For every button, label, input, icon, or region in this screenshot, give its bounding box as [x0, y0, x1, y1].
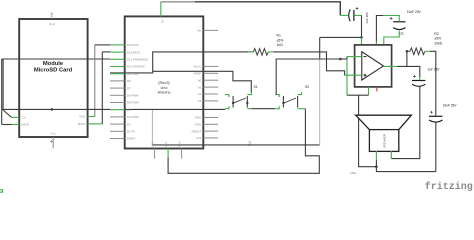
wire MISO to D12 (vertical B) — [101, 52, 103, 124]
pin D4 — [110, 109, 125, 111]
wire 5V up and top rail — [160, 2, 162, 10]
svg-text:AVCC: AVCC — [193, 65, 201, 69]
svg-text:A2: A2 — [198, 92, 202, 96]
pin A1 — [203, 86, 218, 88]
wire op-amp gnd to speaker-left rail — [347, 94, 369, 96]
svg-text:A3: A3 — [198, 99, 202, 103]
svg-text:GND: GND — [179, 141, 182, 147]
wire C4 bottom to speaker right pin — [391, 87, 420, 159]
svg-text:D13/SCK: D13/SCK — [127, 43, 139, 47]
Arduino right analog/power pins — [192, 65, 219, 141]
svg-text:S1: S1 — [254, 85, 258, 89]
pin D1/TX — [110, 130, 125, 132]
pin D0/RX — [110, 138, 125, 140]
pin Vcc (SD bottom) — [50, 131, 56, 148]
wire S2 left feed from GND net above — [276, 59, 340, 95]
Arduino bottom GND pins — [152, 141, 182, 158]
pin Vin (Arduino right top) — [197, 29, 218, 33]
wire S1 right to S2 left (bottom link) — [251, 108, 275, 110]
junction dot speaker left / gnd rail — [375, 165, 378, 168]
wire C3 bottom to op-amp pin — [384, 30, 400, 45]
pin D2 — [110, 123, 125, 125]
Arduino Uno box — [125, 16, 204, 148]
svg-text:LS1: LS1 — [350, 171, 356, 175]
pin AVCC — [203, 65, 218, 67]
wire CS/MOSI left bus bar — [2, 59, 12, 125]
svg-text:Arduino: Arduino — [157, 90, 170, 94]
svg-text:D7: D7 — [127, 86, 131, 90]
wire SCK to D13 (vertical A) — [94, 45, 96, 117]
speaker LS1 — [350, 115, 411, 175]
svg-text:Module: Module — [43, 61, 64, 67]
resistor R2 10k — [407, 32, 443, 55]
pin SCK (SD right) — [79, 115, 95, 119]
capacitor C4 1uF 25V (output coupling, vertical polarized) — [412, 67, 440, 86]
svg-text:(Rev3): (Rev3) — [158, 81, 170, 85]
svg-text:1uF 25V: 1uF 25V — [428, 67, 441, 71]
svg-text:10kΩ: 10kΩ — [434, 41, 442, 45]
pin D9 PWM — [110, 73, 125, 75]
svg-text:SCK: SCK — [79, 115, 86, 119]
wire S1 feed from D9 node — [153, 71, 252, 92]
pin 5V (Arduino top) — [161, 10, 165, 23]
pin D13/SCK — [110, 44, 125, 46]
wire dark horizontal y=144.9 — [152, 144, 319, 146]
svg-text:A1: A1 — [198, 85, 202, 89]
resistor R1 1k — [248, 34, 283, 56]
pin GND — [203, 117, 218, 119]
pin AREF — [203, 72, 218, 74]
svg-text:D12/MISO: D12/MISO — [127, 50, 141, 54]
pin op-amp output — [383, 65, 397, 67]
svg-text:fritzing: fritzing — [425, 181, 473, 193]
pin MISO (SD right) — [78, 122, 95, 126]
svg-text:10uF 25V: 10uF 25V — [407, 10, 422, 14]
wire D9 to R1 (via vertical inside box) — [110, 52, 253, 73]
svg-text:D0/RX: D0/RX — [127, 137, 136, 141]
pin MOSI (SD left) — [12, 123, 30, 127]
pin D8 — [110, 80, 125, 82]
capacitor C5 10uF 25V (zobel, vertical polarized) — [429, 103, 457, 122]
svg-text:D1/TX: D1/TX — [127, 130, 135, 134]
wire light-gray vertical from D9 node down — [151, 109, 153, 144]
wire dot into op-amp top pin — [361, 37, 363, 45]
op-amp triangle — [362, 52, 384, 80]
pin CS (SD left) — [12, 116, 26, 120]
pin op-amp plus input — [345, 74, 362, 76]
capacitor C3 10uF 25V (near U1, vertical polarized) — [390, 10, 422, 35]
svg-text:A0: A0 — [198, 78, 202, 82]
svg-text:U1: U1 — [400, 31, 404, 35]
svg-text:R1: R1 — [277, 34, 281, 38]
svg-text:D5 PWM: D5 PWM — [127, 101, 139, 105]
junction dot R2 left — [406, 50, 409, 53]
wire R1 to op-amp + input — [274, 52, 345, 75]
junction dot on GND rail at SD Gnd column — [51, 108, 54, 111]
svg-text:Gnd: Gnd — [49, 22, 55, 26]
svg-text:CS: CS — [21, 116, 25, 120]
svg-text:D8: D8 — [127, 79, 131, 83]
svg-text:Vcc: Vcc — [50, 131, 56, 135]
svg-text:D11 PWM/MOSI: D11 PWM/MOSI — [127, 58, 148, 62]
svg-text:S2: S2 — [305, 85, 309, 89]
pin A0 — [203, 79, 218, 81]
pin speaker left — [375, 151, 377, 160]
svg-text:±5%: ±5% — [277, 38, 284, 42]
pin A3 — [203, 100, 218, 102]
svg-text:AREF: AREF — [194, 72, 202, 76]
junction dot op-amp V+ — [360, 36, 363, 39]
pin D7 — [110, 87, 125, 89]
svg-text:SPEAKER: SPEAKER — [383, 133, 387, 148]
svg-text:R2: R2 — [434, 32, 438, 36]
pin speaker right — [390, 151, 392, 159]
pin 3V3 — [203, 137, 218, 139]
wire dark horizontal y=37.4 to V+ dot — [320, 36, 362, 38]
wire D11/MOSI net (y=59, drawn over SD box) — [2, 58, 110, 60]
svg-text:MOSI: MOSI — [21, 123, 29, 127]
pin Gnd (SD top) — [49, 13, 55, 26]
wire C5 bottom to gnd rail — [435, 122, 437, 171]
pin D6 PWM — [110, 94, 125, 96]
svg-text:1kΩ: 1kΩ — [277, 43, 284, 47]
pin GND2 — [203, 123, 218, 125]
junction dot GND net at cap column — [339, 58, 342, 61]
svg-text:RESET: RESET — [192, 129, 202, 133]
wire op-amp output to C4 and R2 — [397, 66, 419, 77]
pin op-amp gnd (bottom) — [368, 87, 370, 95]
wire Arduino GND to S2 bottom (bottom rail) — [168, 109, 319, 174]
wire gnd rail bottom to C5 — [376, 167, 435, 172]
wire cap to V+ dot — [361, 15, 363, 37]
pin op-amp unconnected (red, bottom) — [376, 87, 378, 92]
op-amp U1 box — [355, 45, 392, 87]
pin A2 — [203, 93, 218, 95]
capacitor C2 1uF 25V (top, horizontal polarized) — [340, 7, 369, 24]
Arduino left digital pins D13..D0 — [110, 43, 148, 141]
svg-text:GND: GND — [195, 123, 201, 127]
wire R2 right down to C5 — [430, 51, 436, 116]
module MicroSD Card box — [19, 19, 87, 137]
svg-text:Uno: Uno — [161, 86, 168, 90]
svg-text:D9 PWM: D9 PWM — [127, 72, 139, 76]
pin op-amp minus input — [347, 56, 362, 58]
svg-text:D3 PWM: D3 PWM — [127, 115, 139, 119]
pin GND bottom-middle — [167, 149, 169, 158]
svg-text:1kΩ: 1kΩ — [248, 140, 252, 146]
pushbutton S1 — [225, 85, 258, 109]
svg-text:GND: GND — [152, 141, 155, 147]
pin D11 PWM/MOSI — [110, 58, 125, 60]
pin D10 PWM/SS — [110, 66, 125, 68]
pin D12/MISO — [110, 51, 125, 53]
pin D3 PWM — [110, 116, 125, 118]
svg-text:GND: GND — [165, 141, 168, 147]
wire dot up to R2 — [406, 51, 408, 66]
svg-text:D10 PWM/SS: D10 PWM/SS — [127, 65, 145, 69]
wire C3 top to op-amp pin (over the top) — [383, 16, 399, 22]
pushbutton S2 — [275, 85, 309, 109]
svg-text:D6 PWM: D6 PWM — [127, 94, 139, 98]
svg-text:10uF 25V: 10uF 25V — [443, 103, 458, 107]
svg-text:1uF 25V: 1uF 25V — [365, 11, 369, 24]
svg-text:Vin: Vin — [197, 29, 202, 33]
svg-text:MISO: MISO — [78, 122, 87, 126]
wire stub bottom-left corner — [0, 190, 3, 192]
svg-text:3V3: 3V3 — [196, 136, 202, 140]
wire light-gray vertical x=319.7 — [319, 37, 321, 58]
pin GND bottom-left — [154, 149, 156, 159]
svg-text:D4: D4 — [127, 108, 131, 112]
pin GND bottom-right — [181, 149, 183, 159]
svg-text:D2: D2 — [127, 122, 131, 126]
svg-text:MicroSD Card: MicroSD Card — [34, 68, 73, 74]
wire GND rail from left bus across boxes to S1 (y=109.4) — [2, 108, 110, 110]
pin D5 PWM — [110, 102, 125, 104]
svg-text:GND: GND — [195, 116, 201, 120]
pin RESET — [203, 130, 218, 132]
svg-text:±5%: ±5% — [434, 37, 441, 41]
svg-text:5V: 5V — [161, 19, 165, 23]
